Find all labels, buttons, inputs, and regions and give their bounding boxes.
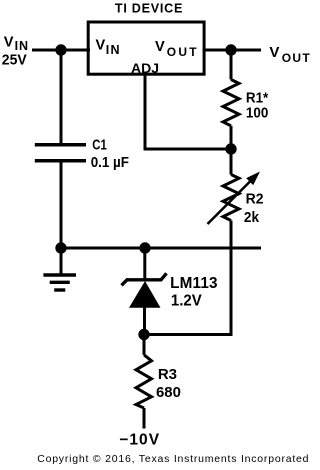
svg-text:OUT: OUT bbox=[282, 51, 311, 65]
svg-text:680: 680 bbox=[156, 384, 181, 401]
svg-text:R3: R3 bbox=[158, 366, 177, 383]
svg-text:R1*: R1* bbox=[246, 91, 269, 107]
svg-text:V: V bbox=[96, 38, 106, 54]
svg-text:C1: C1 bbox=[92, 136, 107, 153]
svg-text:0.1 µF: 0.1 µF bbox=[91, 155, 129, 171]
svg-text:1.2V: 1.2V bbox=[171, 292, 203, 309]
svg-text:25V: 25V bbox=[2, 51, 27, 68]
svg-text:V: V bbox=[155, 39, 165, 55]
svg-text:R2: R2 bbox=[246, 191, 264, 208]
svg-text:LM113: LM113 bbox=[170, 275, 217, 292]
svg-text:OUT: OUT bbox=[167, 45, 198, 59]
svg-text:2k: 2k bbox=[244, 209, 260, 226]
svg-text:−10V: −10V bbox=[119, 431, 160, 448]
svg-text:IN: IN bbox=[106, 43, 120, 57]
svg-text:100: 100 bbox=[246, 106, 268, 122]
svg-text:TI DEVICE: TI DEVICE bbox=[115, 2, 182, 16]
svg-text:ADJ: ADJ bbox=[131, 60, 159, 76]
svg-text:Copyright © 2016, Texas Instru: Copyright © 2016, Texas Instruments Inco… bbox=[37, 453, 308, 465]
svg-text:V: V bbox=[4, 34, 14, 50]
svg-text:V: V bbox=[269, 44, 279, 61]
